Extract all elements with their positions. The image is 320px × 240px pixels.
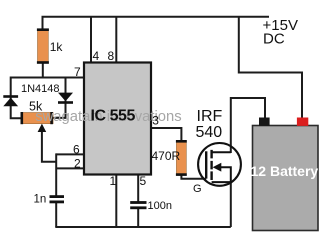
wire node junction vertical to C1: [55, 153, 57, 196]
wire bottom ground rail: [55, 226, 231, 228]
svg-text:4: 4: [93, 49, 100, 63]
svg-text:2: 2: [74, 156, 81, 170]
svg-text:5k: 5k: [29, 100, 43, 114]
transistor Q1 IRF540 mosfet: [198, 143, 241, 186]
svg-text:IRF: IRF: [197, 108, 223, 125]
svg-text:1N4148: 1N4148: [21, 83, 60, 95]
wire 470R bottom to gate: [181, 175, 206, 179]
wire pot wiper to pin2/6 node: [42, 126, 56, 162]
body stub with arrow: [217, 167, 231, 182]
wire +15V branch to battery plus: [239, 17, 302, 119]
svg-text:IC 555: IC 555: [91, 108, 136, 125]
wire 1k bottom to pin7 node: [42, 62, 44, 78]
channel segments: [210, 150, 212, 180]
svg-text:DC: DC: [263, 31, 285, 48]
wire pin6 horizontal: [56, 153, 84, 155]
wiper arrow of 5k pot: [38, 124, 47, 132]
resistor R2 470R: [176, 140, 187, 176]
svg-text:7: 7: [74, 65, 81, 79]
wire pin3 to 470R top: [151, 128, 181, 141]
battery minus terminal (black): [259, 118, 270, 126]
IC U1 555 body: [84, 63, 151, 175]
wire pin8 to top rail: [115, 17, 117, 63]
battery plus terminal (red): [297, 118, 308, 126]
potentiometer 5k: [21, 112, 54, 132]
svg-text:470R: 470R: [152, 149, 181, 163]
svg-text:G: G: [193, 183, 202, 195]
arrowhead into channel: [213, 163, 222, 172]
diode D1 1N4148 (cathode up): [3, 95, 18, 106]
wire C2 bottom to ground rail: [137, 208, 139, 227]
gate bar: [205, 151, 207, 178]
capacitor C2 100n: [130, 201, 146, 209]
svg-text:5: 5: [140, 174, 147, 188]
wire pin7 horizontal: [11, 77, 84, 79]
wire left diode branch: [11, 77, 22, 119]
wire C1 bottom to ground rail: [55, 203, 57, 228]
wire pin5 to C2: [137, 174, 139, 202]
resistor R1 1k: [37, 28, 49, 63]
svg-text:1: 1: [110, 174, 117, 188]
source stub: [212, 181, 231, 183]
diode D2 1N4148 (cathode down): [58, 93, 73, 104]
wire source down to ground rail: [230, 181, 232, 227]
wire pin2 horizontal: [56, 167, 84, 169]
svg-text:3: 3: [152, 114, 159, 128]
battery BT1 12V body: [253, 126, 319, 231]
wire drain up and over to battery minus: [231, 98, 265, 153]
svg-text:8: 8: [108, 49, 115, 63]
svg-text:540: 540: [196, 124, 223, 141]
svg-text:12 Battery: 12 Battery: [251, 163, 319, 179]
svg-text:100n: 100n: [148, 200, 172, 212]
svg-text:1n: 1n: [34, 194, 47, 206]
wire pin1 to ground rail: [115, 174, 117, 227]
svg-text:1k: 1k: [50, 40, 64, 54]
wire top rail from R1 to +15V: [43, 17, 270, 30]
wire pin4 to top rail: [90, 17, 92, 63]
capacitor C1 1n: [50, 195, 65, 203]
drain stub: [212, 151, 231, 153]
wire right diode branch: [53, 77, 66, 118]
svg-text:6: 6: [73, 142, 80, 156]
